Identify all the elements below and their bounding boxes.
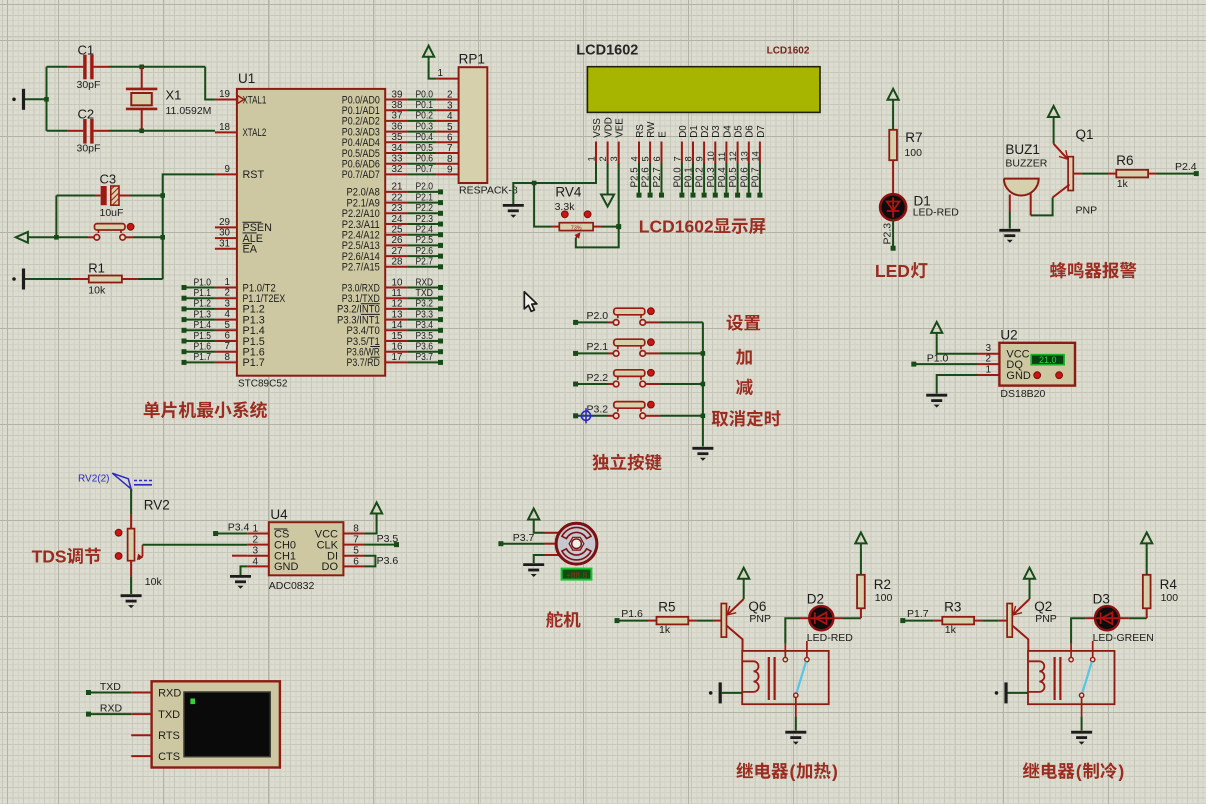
svg-text:3: 3 — [225, 298, 231, 309]
wire/net P3.7 — [498, 541, 503, 546]
potentiometer RV4 — [551, 226, 559, 228]
svg-text:P2.0: P2.0 — [416, 182, 434, 193]
pin ALE (30) U1 left — [215, 237, 237, 239]
svg-text:P2.3: P2.3 — [416, 214, 434, 225]
svg-text:P2.2: P2.2 — [587, 372, 609, 384]
pin P3.4/T0 (14) U1 right / net P3.4 — [385, 329, 407, 331]
wire left vertical C3/button — [55, 196, 57, 238]
svg-text:P2.7: P2.7 — [652, 167, 663, 187]
svg-text:P3.5: P3.5 — [377, 533, 399, 545]
wire/net P1.7 — [900, 618, 905, 623]
svg-text:BUZZER: BUZZER — [1005, 157, 1047, 169]
svg-text:P0.7/AD7: P0.7/AD7 — [342, 169, 380, 181]
resistor R3 — [934, 620, 943, 622]
label: servo — [546, 611, 580, 628]
svg-text:P3.7: P3.7 — [513, 532, 535, 544]
push-button key P2.0 — [573, 320, 578, 325]
svg-text:X1: X1 — [166, 88, 182, 103]
pin P1.3 (4) U1 left — [215, 319, 237, 321]
probe marker (blue crosshair) — [578, 408, 593, 423]
svg-text:P1.1: P1.1 — [194, 288, 212, 299]
wire/net P0.7 LCD — [759, 163, 761, 193]
resistor R2 — [857, 575, 865, 609]
resistor R7 — [889, 130, 897, 160]
node C3 junction — [160, 193, 165, 198]
power symbol U4 — [376, 514, 378, 518]
svg-text:1: 1 — [587, 156, 597, 161]
pin XTAL1 clock mark — [238, 96, 245, 104]
svg-text:2: 2 — [986, 354, 992, 365]
svg-text:10k: 10k — [145, 576, 163, 588]
power symbol servo — [533, 520, 535, 524]
pin VCC (8) U4 right — [343, 533, 364, 535]
svg-text:P0.1: P0.1 — [416, 100, 434, 111]
svg-text:R6: R6 — [1116, 153, 1133, 168]
svg-text:5: 5 — [641, 156, 651, 161]
svg-text:LED-RED: LED-RED — [913, 206, 960, 218]
svg-text:RS: RS — [635, 124, 646, 138]
svg-text:R5: R5 — [658, 600, 675, 615]
pin RST (9) U1 left — [215, 173, 237, 175]
wire RV2 wiper to CH0 — [142, 545, 144, 557]
power symbol RP1 — [428, 57, 430, 61]
pin TXD VT1 — [131, 713, 151, 715]
label: cancel timing — [712, 410, 781, 427]
pin P3.6/WR (16) U1 right / net P3.6 — [385, 351, 407, 353]
wire D3 to R4 — [1119, 617, 1129, 619]
wire/net P1.0 — [182, 285, 187, 290]
svg-text:12: 12 — [728, 151, 738, 161]
svg-text:100: 100 — [904, 147, 922, 159]
pin P0.6/AD6 (33) U1 right / net P0.6 — [385, 163, 407, 165]
temperature sensor U2 DS18B20 — [978, 353, 1000, 355]
wire C1 top net — [47, 66, 68, 68]
pin P2.5/A13 (26) U1 right / net P2.5 — [385, 244, 407, 246]
virtual terminal VT1 — [152, 681, 280, 767]
svg-text:4: 4 — [447, 111, 453, 122]
ground G (R3 common) — [1071, 732, 1092, 737]
diode D2 LED-RED — [800, 617, 809, 619]
svg-text:P0.1: P0.1 — [684, 167, 695, 187]
svg-text:D1: D1 — [689, 125, 700, 138]
svg-text:P0.4: P0.4 — [416, 132, 434, 143]
svg-text:LED-RED: LED-RED — [807, 632, 854, 644]
pin P2.3/A11 (24) U1 right / net P2.3 — [385, 223, 407, 225]
svg-text:D0: D0 — [678, 125, 689, 138]
wire XTAL2 net — [109, 130, 215, 132]
svg-text:30pF: 30pF — [77, 143, 101, 155]
svg-text:8: 8 — [353, 524, 359, 535]
svg-text:P0.0: P0.0 — [416, 89, 434, 100]
svg-text:P0.6: P0.6 — [739, 167, 750, 188]
svg-text:10uF: 10uF — [100, 207, 124, 219]
node RST/button junction — [160, 235, 165, 240]
svg-text:P1.0: P1.0 — [927, 352, 949, 364]
svg-text:35: 35 — [392, 132, 403, 143]
svg-text:39: 39 — [392, 89, 403, 100]
ground G9 (servo) — [523, 565, 544, 570]
svg-text:D4: D4 — [722, 125, 733, 138]
diode D3 LED-GREEN — [1086, 617, 1095, 619]
wire R7 top — [892, 104, 894, 130]
wire button row — [28, 236, 88, 238]
svg-text:GND: GND — [1006, 370, 1031, 382]
wire/net P0.6 LCD — [748, 163, 750, 193]
power symbol U2 — [936, 333, 938, 337]
svg-text:5: 5 — [225, 320, 231, 331]
relay switch arm (cyan) — [1082, 662, 1092, 693]
label: set — [727, 315, 761, 331]
wire D1 to net P2.3 — [892, 220, 894, 246]
svg-text:EA: EA — [243, 244, 258, 256]
svg-text:36: 36 — [392, 121, 403, 132]
power symbol R7 — [892, 100, 894, 104]
svg-text:R7: R7 — [905, 130, 922, 145]
wire/net P2.7 LCD — [661, 163, 663, 193]
wire/net P1.0 — [911, 362, 916, 367]
svg-text:D3: D3 — [711, 125, 722, 138]
svg-text:30pF: 30pF — [77, 79, 101, 91]
node crystal-left junction — [44, 97, 49, 102]
potentiometer RV4 wiper arrow — [576, 234, 579, 238]
svg-text:GND: GND — [274, 561, 299, 573]
svg-text:P0.5: P0.5 — [728, 167, 739, 188]
ground G3 (LCD VSS) — [503, 205, 524, 210]
svg-text:28: 28 — [392, 257, 403, 268]
svg-text:100: 100 — [1161, 592, 1179, 604]
svg-text:PNP: PNP — [1035, 613, 1057, 625]
pin P2.6/A14 (27) U1 right / net P2.6 — [385, 255, 407, 257]
svg-text:2: 2 — [252, 535, 258, 546]
wire/net P1.4 — [182, 328, 187, 333]
capacitor C2 — [47, 130, 68, 132]
pin P3.3/INT1 (13) U1 right / net P3.3 — [385, 319, 407, 321]
svg-text:P0.0: P0.0 — [672, 167, 683, 188]
wire servo V+ — [534, 524, 545, 533]
ground G1 (crystal net) — [12, 98, 16, 102]
svg-text:31: 31 — [219, 238, 230, 249]
svg-text:P0.6: P0.6 — [416, 154, 434, 165]
svg-text:30: 30 — [219, 228, 230, 239]
svg-text:10k: 10k — [88, 284, 106, 296]
svg-text:P3.7/RD: P3.7/RD — [347, 357, 380, 369]
node X1 bottom — [139, 129, 144, 134]
svg-text:TDS: TDS — [32, 547, 67, 567]
power symbol Q6 emitter — [743, 579, 745, 583]
wire key P2.2 to bus — [660, 383, 703, 385]
svg-text:3: 3 — [447, 100, 453, 111]
svg-text:P0.2: P0.2 — [416, 111, 434, 122]
pin PSEN (29) U1 left — [215, 226, 237, 228]
svg-text:2: 2 — [225, 288, 230, 299]
pin P0.3/AD3 (36) U1 right / net P0.3 — [385, 131, 407, 133]
pin P0.1/AD1 (38) U1 right / net P0.1 — [385, 109, 407, 111]
svg-text:PNP: PNP — [1076, 204, 1098, 216]
node bus junctions — [701, 351, 706, 356]
wire/net P1.1 — [182, 296, 187, 301]
pin EA (31) U1 left — [215, 248, 237, 250]
capacitor C3 — [56, 195, 95, 197]
svg-text:R3: R3 — [944, 600, 961, 615]
svg-text:STC89C52: STC89C52 — [238, 378, 288, 389]
svg-text:P3.6: P3.6 — [377, 555, 399, 567]
pin DO (6) U4 right — [343, 565, 364, 567]
svg-text:C3: C3 — [100, 171, 117, 186]
diode D1 LED-RED — [880, 194, 906, 220]
wire key P2.0 to bus — [660, 321, 703, 323]
wire Q1 emitter — [1053, 121, 1055, 144]
relay RL (cooling) — [1028, 651, 1115, 704]
wire/net P0.2 LCD — [703, 163, 705, 193]
pin P0.2/AD2 (37) U1 right / net P0.2 — [385, 120, 407, 122]
wire R7-D1 — [892, 160, 894, 195]
svg-text:7: 7 — [353, 535, 359, 546]
potentiometer RV2 — [130, 514, 132, 529]
svg-text:P2.7/A15: P2.7/A15 — [342, 262, 380, 274]
svg-text:8: 8 — [684, 156, 694, 161]
motor servo (MOTOR-PWMSERVO) — [545, 532, 560, 534]
ground G (R3 coil) — [995, 691, 999, 695]
svg-text:4: 4 — [630, 156, 640, 161]
ground G5 (buzzer) — [999, 230, 1020, 235]
svg-text:D7: D7 — [756, 125, 767, 138]
pin RTS VT1 — [131, 734, 151, 736]
wire D2 to R2 — [833, 617, 843, 619]
svg-text:BUZ1: BUZ1 — [1005, 142, 1040, 157]
svg-text:3.3k: 3.3k — [555, 201, 576, 213]
svg-text:1: 1 — [437, 68, 443, 79]
mouse cursor — [524, 292, 537, 312]
svg-text:LED: LED — [875, 261, 910, 281]
svg-text:7: 7 — [225, 341, 230, 352]
svg-text:15: 15 — [392, 331, 403, 342]
node VEE/RV4 junction — [616, 224, 621, 229]
svg-text:P2.7: P2.7 — [416, 257, 434, 268]
svg-text:RXD: RXD — [100, 702, 123, 714]
capacitor C1 — [68, 66, 83, 68]
svg-text:P2.6: P2.6 — [641, 167, 652, 188]
svg-text:2: 2 — [447, 90, 453, 101]
svg-text:P1.6: P1.6 — [621, 608, 643, 620]
wire key bus — [702, 322, 704, 446]
transistor Q6 PNP — [721, 604, 726, 638]
pin P0.5/AD5 (34) U1 right / net P0.5 — [385, 152, 407, 154]
svg-text:5: 5 — [447, 122, 453, 133]
label: relay (heating) — [736, 762, 788, 779]
wire/net P2.5 LCD — [638, 163, 640, 193]
svg-text:D6: D6 — [745, 125, 756, 138]
svg-text:9: 9 — [695, 156, 705, 161]
label: plus — [736, 349, 752, 365]
svg-text:27: 27 — [392, 246, 403, 257]
node X1 top — [139, 65, 144, 70]
wire RV4 left — [534, 183, 551, 227]
power symbol Q1 — [1053, 117, 1055, 121]
pin P1.2 (3) U1 left — [215, 308, 237, 310]
svg-text:14: 14 — [750, 151, 760, 161]
svg-text:17: 17 — [392, 352, 403, 363]
svg-text:22: 22 — [392, 192, 403, 203]
wire VEE to RV4 wiper — [576, 163, 619, 247]
svg-text:5: 5 — [353, 546, 359, 557]
svg-text:P1.4: P1.4 — [194, 320, 212, 331]
svg-text:VDD: VDD — [604, 117, 615, 138]
wire U4 GND — [241, 566, 248, 575]
pin P2.0/A8 (21) U1 right / net P2.0 — [385, 191, 407, 193]
resistor R1 — [71, 278, 88, 280]
pin P3.0/RXD (10) U1 right / net RXD — [385, 287, 407, 289]
pin CH0 (2) U4 left — [247, 544, 268, 546]
svg-text:XTAL2: XTAL2 — [243, 127, 267, 139]
svg-text:P2.4: P2.4 — [416, 225, 434, 236]
svg-text:P1.2: P1.2 — [194, 299, 212, 310]
label: minus — [736, 379, 753, 395]
svg-text:VSS: VSS — [592, 118, 603, 138]
pin XTAL2 (18) U1 left — [215, 131, 237, 133]
svg-text:D2: D2 — [807, 591, 824, 606]
svg-text:37: 37 — [392, 111, 403, 122]
svg-text:P2.0: P2.0 — [587, 310, 609, 322]
svg-text:P1.6: P1.6 — [194, 342, 212, 353]
svg-text:Q1: Q1 — [1076, 127, 1094, 142]
svg-text:4: 4 — [252, 556, 258, 567]
svg-text:PNP: PNP — [749, 613, 771, 625]
svg-text:1: 1 — [986, 365, 992, 376]
svg-text:6: 6 — [447, 133, 453, 144]
wire/net P0.3 LCD — [714, 163, 716, 193]
pin P2.1/A9 (22) U1 right / net P2.1 — [385, 202, 407, 204]
svg-text:RXD: RXD — [416, 277, 434, 288]
pin GND (4) U4 left — [247, 565, 268, 567]
wire/net P1.7 — [182, 360, 187, 365]
svg-text:TXD: TXD — [158, 709, 180, 721]
svg-text:P0.7: P0.7 — [416, 164, 434, 175]
label: independent keys — [592, 454, 661, 471]
svg-text:C1: C1 — [78, 42, 95, 57]
U2 temperature display 21.0 — [1031, 355, 1064, 365]
wire/net P1.3 — [182, 317, 187, 322]
svg-text:P2.2: P2.2 — [416, 203, 434, 214]
svg-text:P1.3: P1.3 — [194, 309, 212, 320]
svg-text:P3.7: P3.7 — [416, 352, 434, 363]
terminal cursor — [190, 699, 195, 705]
svg-text:P3.4: P3.4 — [228, 522, 250, 534]
power terminal left arrow — [16, 232, 28, 243]
wire/net P0.5 LCD — [737, 163, 739, 193]
svg-text:RW: RW — [646, 121, 657, 138]
svg-text:8: 8 — [447, 154, 453, 165]
pin DI (5) U4 right — [343, 555, 364, 557]
svg-text:8: 8 — [225, 352, 231, 363]
svg-text:R1: R1 — [88, 260, 105, 275]
wire RP1 pin1 — [429, 61, 437, 79]
svg-text:P2.4: P2.4 — [1175, 161, 1197, 173]
svg-text:26: 26 — [392, 235, 403, 246]
svg-text:21: 21 — [392, 182, 403, 193]
wire/net P2.4 — [1157, 173, 1195, 175]
svg-text:DS18B20: DS18B20 — [1000, 388, 1045, 400]
wire DI/DO bracket net P3.6 — [365, 556, 376, 567]
ground G (R5 common) — [785, 732, 806, 737]
wire/net TXD — [86, 690, 91, 695]
op-amp U1 body (STC89C52 MCU) — [237, 89, 385, 376]
svg-text:C2: C2 — [78, 106, 95, 121]
pin P0.4/AD4 (35) U1 right / net P0.4 — [385, 141, 407, 143]
svg-text:P3.5: P3.5 — [416, 331, 434, 342]
svg-text:LED-GREEN: LED-GREEN — [1093, 632, 1154, 644]
ground G (R5 coil) — [709, 691, 713, 695]
svg-text:U2: U2 — [1000, 328, 1017, 343]
pin XTAL1 (19) U1 left — [215, 99, 237, 101]
svg-text:P0.3: P0.3 — [706, 167, 717, 188]
svg-text:9: 9 — [225, 164, 230, 175]
wire/net RXD — [86, 712, 91, 717]
wire BUZ1 right leg to Q1 collector — [1030, 194, 1032, 216]
svg-text:73%: 73% — [571, 225, 582, 231]
transistor Q2 PNP — [1007, 604, 1012, 638]
transistor Q1 PNP — [1054, 144, 1068, 159]
svg-text:R2: R2 — [874, 577, 891, 592]
wire servo gnd — [534, 555, 545, 563]
pin P1.1/T2EX (2) U1 left — [215, 297, 237, 299]
svg-text:34: 34 — [392, 143, 403, 154]
svg-text:6: 6 — [652, 156, 662, 161]
svg-text:1: 1 — [252, 524, 258, 535]
svg-text:XTAL1: XTAL1 — [243, 94, 267, 106]
svg-text:11.0592M: 11.0592M — [166, 105, 212, 117]
svg-text:14: 14 — [392, 320, 403, 331]
pin CS (1) U4 left — [247, 533, 268, 535]
power symbol Q2 emitter — [1029, 579, 1031, 583]
ground G7 (RV2) — [121, 596, 142, 601]
wire/net P2.6 LCD — [649, 163, 651, 193]
label: MCU minimal system — [144, 401, 267, 418]
node VSS/RV4 junction — [532, 181, 537, 186]
svg-text:D5: D5 — [734, 125, 745, 138]
svg-text:): ) — [832, 761, 838, 781]
svg-text:P1.7: P1.7 — [907, 608, 929, 620]
svg-text:P2.3: P2.3 — [882, 223, 894, 245]
svg-text:P0.7: P0.7 — [750, 167, 761, 187]
svg-text:13: 13 — [392, 309, 403, 320]
svg-text:RV4: RV4 — [555, 185, 582, 200]
svg-text:4: 4 — [225, 309, 231, 320]
svg-text:25: 25 — [392, 225, 403, 236]
wire RV2 top — [130, 489, 132, 514]
svg-text:11: 11 — [392, 288, 402, 299]
svg-text:VEE: VEE — [615, 118, 626, 138]
relay contacts — [1070, 644, 1072, 658]
svg-text:3: 3 — [609, 156, 619, 161]
svg-text:32: 32 — [392, 164, 403, 175]
wire VSS to ground — [513, 163, 596, 204]
svg-text:LCD1602: LCD1602 — [576, 42, 638, 58]
wire key P2.1 to bus — [660, 352, 703, 354]
svg-text:1k: 1k — [1117, 178, 1129, 190]
wire/net P0.1 LCD — [692, 163, 694, 193]
svg-text:ADC0832: ADC0832 — [269, 580, 315, 592]
relay contacts — [784, 644, 786, 658]
svg-text:P3.4: P3.4 — [416, 320, 434, 331]
wire/net P3.5 — [365, 544, 395, 546]
pin CLK (7) U4 right — [343, 544, 364, 546]
svg-text:RXD: RXD — [158, 687, 181, 699]
pin P1.5 (6) U1 left — [215, 340, 237, 342]
label: relay (cooling) — [1023, 762, 1075, 779]
svg-text:RV2: RV2 — [144, 497, 170, 512]
wire U2 GND to ground — [937, 375, 978, 394]
svg-text:100: 100 — [875, 592, 893, 604]
